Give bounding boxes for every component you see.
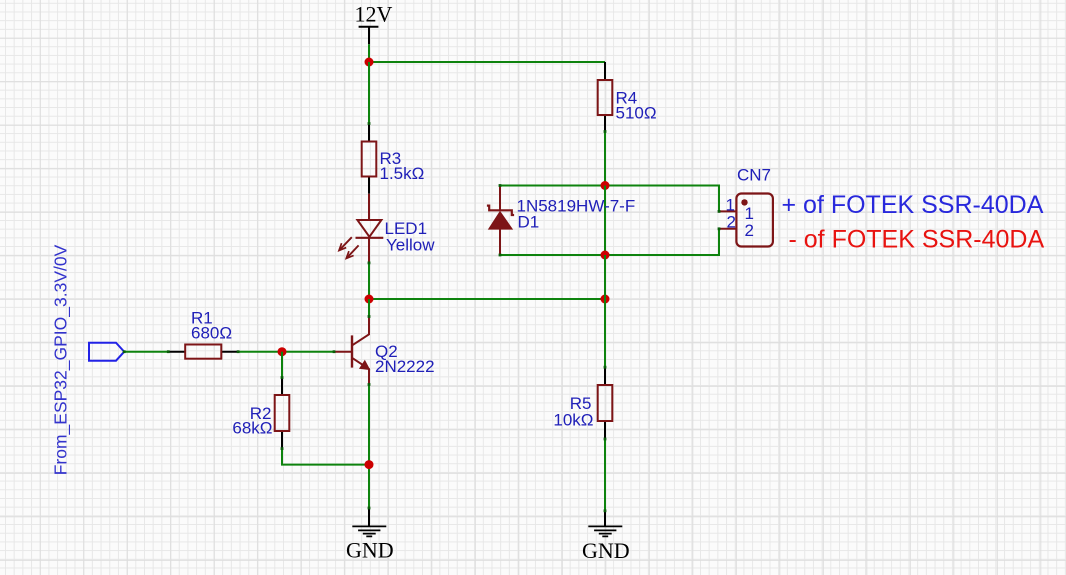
wire 12V stem xyxy=(368,44,370,62)
wire right rail between nodes xyxy=(604,186,606,256)
svg-text:2: 2 xyxy=(745,221,754,240)
resistor R4 xyxy=(598,62,657,132)
node mid-right junction xyxy=(601,295,610,304)
transistor Q2 xyxy=(334,317,435,385)
wire bottom D1/CN7 net xyxy=(500,229,719,255)
resistor R5 xyxy=(553,367,612,439)
svg-text:GND: GND xyxy=(582,538,630,563)
wire mid rail horizontal xyxy=(369,298,605,300)
wire endpoint dots xyxy=(123,122,721,512)
svg-text:2N2222: 2N2222 xyxy=(375,357,435,376)
node mid-left junction xyxy=(365,295,374,304)
wire R4 to node xyxy=(604,132,606,186)
node emitter junction xyxy=(365,460,374,469)
svg-text:GND: GND xyxy=(346,538,394,563)
svg-text:12V: 12V xyxy=(355,2,393,27)
ground GND left xyxy=(346,508,394,563)
wire R5 rail top xyxy=(604,299,606,367)
power flag 12V xyxy=(355,2,393,45)
svg-text:- of FOTEK SSR-40DA: - of FOTEK SSR-40DA xyxy=(789,225,1045,253)
wire collector up xyxy=(368,299,370,317)
svg-text:D1: D1 xyxy=(518,213,540,232)
wire LED to mid junction xyxy=(368,263,370,299)
wire junction down to R2 xyxy=(281,352,283,378)
wire left rail above R3 xyxy=(368,62,370,124)
wire right rail to mid xyxy=(604,255,606,299)
svg-text:CN7: CN7 xyxy=(737,166,771,185)
connector CN7 xyxy=(719,166,773,247)
wire top D1/CN7 net xyxy=(500,186,719,212)
svg-text:From_ESP32_GPIO_3.3V/0V: From_ESP32_GPIO_3.3V/0V xyxy=(51,244,72,475)
diode D1 schottky xyxy=(487,186,635,256)
svg-text:510Ω: 510Ω xyxy=(616,104,657,123)
wire port to R1 xyxy=(124,351,168,353)
LED LED1 xyxy=(339,194,435,263)
node D1 bottom junction xyxy=(601,251,610,260)
svg-text:Yellow: Yellow xyxy=(386,236,435,255)
svg-text:10kΩ: 10kΩ xyxy=(553,411,593,430)
node D1 top junction xyxy=(601,181,610,190)
wire R1 to base xyxy=(238,351,334,353)
resistor R3 xyxy=(362,124,425,194)
resistor R2 xyxy=(232,378,289,449)
svg-text:68kΩ: 68kΩ xyxy=(232,419,272,438)
svg-text:680Ω: 680Ω xyxy=(191,324,232,343)
wire R2 to emitter rail xyxy=(282,449,369,465)
node base junction xyxy=(278,347,287,356)
node top-left junction xyxy=(365,58,374,67)
svg-text:1.5kΩ: 1.5kΩ xyxy=(380,164,425,183)
wire R5 to ground xyxy=(604,439,606,511)
wire top rail horizontal xyxy=(369,61,605,63)
svg-text:2: 2 xyxy=(727,213,736,232)
svg-text:+ of FOTEK SSR-40DA: + of FOTEK SSR-40DA xyxy=(782,191,1044,219)
ground GND right xyxy=(582,511,630,563)
resistor R1 xyxy=(168,309,238,359)
net port From_ESP32 xyxy=(51,244,125,475)
wire emitter down xyxy=(368,385,370,509)
